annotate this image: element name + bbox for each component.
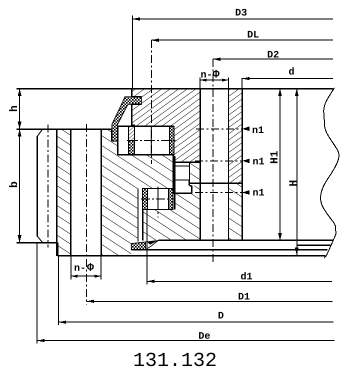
dimension d1 extension line xyxy=(146,210,148,285)
upper roller center line (DL extension) xyxy=(150,40,152,164)
upper thrust roller row with cage spacers xyxy=(127,126,176,154)
outer ring bottom face line (with b dimension extension) xyxy=(16,242,57,244)
svg-text:n-Φ: n-Φ xyxy=(74,262,94,275)
dimension D extension line xyxy=(58,256,60,325)
support plate bottom line xyxy=(58,255,326,257)
upper seal strip xyxy=(112,97,141,141)
dimension D line with arrow xyxy=(59,321,334,323)
svg-text:De: De xyxy=(198,332,210,343)
lube hole center line upper xyxy=(196,128,242,130)
outer ring spigot step xyxy=(57,243,59,256)
inner ring bolt hole center line (D2 extension) xyxy=(212,59,214,262)
seal channel wall xyxy=(117,126,119,154)
n1 leader arrows on bore face xyxy=(242,127,249,132)
dimension De line with arrow xyxy=(37,340,334,342)
dimension H1 line with arrows xyxy=(279,89,281,241)
upper roller vertical center line xyxy=(150,126,152,154)
lube hole center line middle xyxy=(195,160,242,162)
lower thrust roller row with cage spacers xyxy=(141,189,175,210)
svg-text:n1: n1 xyxy=(253,157,265,168)
top mounting face line of bearing (with h dimension extension) xyxy=(16,88,333,90)
outer ring bolt hole right wall xyxy=(100,129,102,256)
seal groove left wall xyxy=(111,129,113,141)
dimension DL line with arrow xyxy=(151,39,333,41)
seal slot bottom wall xyxy=(132,103,142,105)
svg-text:D2: D2 xyxy=(267,51,279,62)
svg-text:n1: n1 xyxy=(252,126,264,137)
ring gap wall left xyxy=(137,189,139,242)
inner ring rib face xyxy=(174,156,176,209)
upper raceway line xyxy=(118,154,129,156)
outer ring section hatch (left ring of slewing bearing, backslash hatch) xyxy=(57,129,174,256)
seal slot top wall xyxy=(132,96,142,98)
svg-text:D: D xyxy=(218,312,224,323)
outer ring inner face at radial roller xyxy=(172,155,174,194)
radial roller row xyxy=(175,162,189,180)
dimension D3 extension line xyxy=(131,15,133,88)
svg-text:n1: n1 xyxy=(252,189,264,200)
outer ring bolt hole center line (D1 extension) xyxy=(86,124,88,305)
dimension D3 line with arrow xyxy=(132,18,333,20)
outer ring top chamfer xyxy=(37,129,42,136)
outer ring top face line xyxy=(16,128,112,130)
inner ring left face lower segment xyxy=(131,104,133,125)
dimension H line with arrows xyxy=(296,89,298,255)
svg-text:d: d xyxy=(289,67,295,79)
svg-text:b: b xyxy=(9,181,21,188)
wavy break line of companion structure xyxy=(321,88,339,258)
dimension d extension line xyxy=(241,78,243,89)
lower seal strip xyxy=(131,240,158,249)
inner ring left face upper segment xyxy=(131,89,133,97)
ring gap wall right xyxy=(142,210,144,241)
inner ring split joint line xyxy=(189,182,242,184)
outer ring outer cylindrical face xyxy=(36,136,38,236)
lower roller center line xyxy=(157,186,159,217)
dimension n-phi top: extension lines, line, arrows xyxy=(199,77,201,88)
inner ring overhang bottom xyxy=(132,124,135,126)
inner ring upper half section hatch (slash hatch) xyxy=(132,89,242,184)
dimension n-phi bottom: extension lines, line, arrows xyxy=(70,256,72,280)
inner ring bore face xyxy=(241,89,243,241)
svg-text:D3: D3 xyxy=(235,9,247,20)
svg-text:D1: D1 xyxy=(238,293,250,304)
inner ring bottom face line xyxy=(159,239,334,241)
svg-text:h: h xyxy=(9,105,21,112)
lube hole center line lower xyxy=(195,192,242,194)
dimension d1 line with arrow xyxy=(147,280,332,282)
outer ring relief groove center line xyxy=(47,125,49,248)
svg-text:131.132: 131.132 xyxy=(133,350,217,373)
companion flange bottom line xyxy=(297,244,332,246)
dimension D2 line with arrow xyxy=(213,58,333,60)
radial roller top step line xyxy=(174,161,200,163)
inner ring bolt hole right wall xyxy=(228,89,230,241)
dimension d line with arrow xyxy=(242,78,333,80)
svg-text:H: H xyxy=(289,180,301,187)
dimension De extension line xyxy=(36,243,38,344)
svg-text:DL: DL xyxy=(247,31,259,42)
dimension h and b shared line with arrows xyxy=(19,89,21,243)
step under radial roller xyxy=(188,180,190,186)
svg-text:d1: d1 xyxy=(240,271,252,283)
outer ring bore wall xyxy=(56,129,58,256)
inner ring bolt hole left wall xyxy=(199,89,201,241)
seal gap top line xyxy=(118,125,174,127)
svg-text:n-Φ: n-Φ xyxy=(201,69,220,82)
outer ring bolt hole left wall xyxy=(70,129,72,256)
svg-text:H1: H1 xyxy=(270,150,282,164)
inner ring lower half section hatch xyxy=(143,162,243,240)
support plate top line xyxy=(131,249,327,251)
outer ring bottom chamfer xyxy=(37,236,42,242)
dimension D1 line with arrow xyxy=(87,300,333,302)
lower roller vertical center line xyxy=(157,189,159,210)
